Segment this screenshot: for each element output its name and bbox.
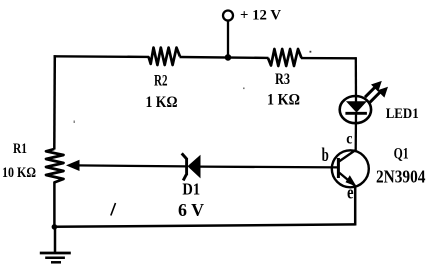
svg-text:2N3904: 2N3904 (376, 167, 425, 187)
transistor Q1 (332, 150, 369, 187)
svg-text:10 KΩ: 10 KΩ (2, 165, 36, 181)
wire: top rail middle segment (180, 56, 269, 59)
svg-text:LED1: LED1 (386, 106, 419, 122)
wire: top rail to LED (355, 57, 358, 101)
svg-text:R1: R1 (13, 141, 27, 157)
svg-text:R2: R2 (154, 73, 168, 90)
wire: top rail left segment (54, 55, 150, 58)
wiper arrow of R1 (66, 160, 80, 171)
svg-text:6 V: 6 V (178, 200, 204, 220)
wire: left rail lower (53, 182, 56, 228)
svg-text:b: b (322, 145, 329, 166)
wire: left rail upper (53, 55, 56, 149)
zener diode D1 (182, 153, 201, 180)
svg-text:R3: R3 (275, 71, 290, 88)
svg-text:e: e (347, 182, 354, 203)
svg-text:1 KΩ: 1 KΩ (267, 92, 300, 109)
svg-text:+ 12 V: + 12 V (240, 7, 281, 23)
ground (40, 227, 71, 263)
stray slash mark (111, 203, 116, 216)
resistor R2 (149, 48, 180, 65)
svg-text:D1: D1 (182, 179, 200, 198)
svg-text:1 KΩ: 1 KΩ (146, 94, 178, 111)
LED LED1 (340, 81, 388, 123)
wire: top rail right segment (301, 57, 357, 60)
resistor R1 potentiometer body (46, 149, 64, 183)
resistor R3 (268, 49, 302, 66)
wire: bottom rail (54, 224, 356, 226)
junction dot: supply node (225, 54, 232, 61)
wire: LED to collector (355, 114, 358, 152)
wire: wiper to D1 (76, 165, 187, 166)
scan speck (310, 51, 312, 53)
junction dot: ground node (52, 224, 58, 230)
svg-text:Q1: Q1 (394, 145, 409, 162)
svg-text:c: c (346, 130, 352, 147)
+12V supply terminal (223, 11, 233, 21)
scan speck (243, 88, 245, 90)
wire: D1 to base (200, 165, 339, 168)
wire: supply drop (227, 21, 229, 59)
scan speck (74, 121, 76, 124)
wire: emitter to bottom rail (354, 186, 357, 226)
